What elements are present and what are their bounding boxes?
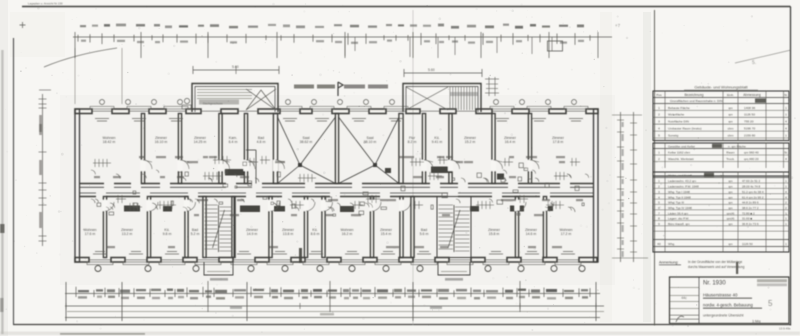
svg-text:Pos: Pos (656, 93, 662, 97)
title block outer box (670, 277, 790, 324)
svg-text:qm: qm (728, 206, 733, 210)
svg-text:17.2 m: 17.2 m (561, 232, 572, 236)
light smudge right of Nr row2 (757, 283, 787, 286)
svg-text:1: 1 (785, 133, 787, 137)
svg-text:17.8 m: 17.8 m (553, 140, 564, 144)
svg-text:1126 50: 1126 50 (744, 113, 755, 117)
svg-text:qm: qm (728, 190, 733, 194)
central corridor walls (80, 184, 594, 197)
building outer top wall with window openings (75, 109, 92, 114)
table section 1 box (653, 91, 789, 141)
svg-text:qm 960 40: qm 960 40 (744, 151, 759, 155)
svg-text:Whg.: Whg. (668, 242, 675, 246)
right panel data table (653, 60, 789, 269)
left vertical dimension chain (39, 90, 52, 246)
svg-text:qm: qm (728, 242, 733, 246)
stairwell 2 exit porch (438, 262, 470, 275)
svg-text:2: 2 (658, 157, 660, 161)
svg-text:qm: qm (720, 173, 725, 177)
bottom edge dark dash (60, 333, 145, 335)
bottom window sills (87, 262, 581, 265)
svg-text:nordw. 4-gesch. Bebauung: nordw. 4-gesch. Bebauung (703, 303, 753, 308)
page frame left border (13, 38, 15, 325)
svg-text:51.2 qm 4x 38 4: 51.2 qm 4x 38 4 (742, 190, 764, 194)
svg-text:61.4 qm 2x 95 2: 61.4 qm 2x 95 2 (742, 195, 764, 199)
dimension line over annex 1 (193, 65, 279, 74)
svg-text:38.10 m: 38.10 m (364, 140, 377, 144)
svg-text:15.2 m: 15.2 m (465, 140, 476, 144)
svg-text:Häuserstrasse 40: Häuserstrasse 40 (703, 293, 738, 298)
table section 1 text (656, 93, 788, 137)
svg-text:14.6 m: 14.6 m (526, 232, 537, 236)
svg-text:6.4 m: 6.4 m (229, 140, 238, 144)
svg-text:31.60 ■: 31.60 ■ (742, 217, 752, 221)
svg-text:1: 1 (658, 106, 660, 110)
radiator marks under windows (93, 119, 583, 255)
svg-text:44.8 2x 89 6: 44.8 2x 89 6 (742, 201, 759, 205)
chimney blocks (124, 167, 553, 213)
svg-text:1:Mg: 1:Mg (752, 320, 760, 324)
building floor plan group (75, 65, 738, 281)
dimension line over annex 2 (404, 68, 499, 96)
svg-text:Keller 1162 cbm: Keller 1162 cbm (668, 151, 691, 155)
svg-text:13.8 m: 13.8 m (283, 232, 294, 236)
X-hall crossed ceiling diagonals (278, 117, 400, 184)
svg-text:4: 4 (785, 120, 787, 124)
svg-text:qm(4): qm(4) (727, 217, 735, 221)
svg-text:5.2 m: 5.2 m (191, 232, 200, 236)
bottom band interior partition walls (103, 197, 546, 258)
svg-text:16.2 m: 16.2 m (342, 232, 353, 236)
small porch left of annex 1 (182, 98, 191, 109)
svg-text:n. qm Fläche: n. qm Fläche (728, 144, 746, 148)
svg-text:qm: qm (728, 106, 733, 110)
svg-text:St.: St. (784, 93, 788, 97)
svg-text:16.10 m: 16.10 m (155, 140, 168, 144)
bottom dimension chains (65, 281, 604, 321)
svg-text:36 8 2x 73 6: 36 8 2x 73 6 (742, 222, 759, 226)
svg-text:8.2 m: 8.2 m (408, 140, 417, 144)
svg-text:47.60 2x 51 2: 47.60 2x 51 2 (742, 179, 761, 183)
svg-text:Lagerr. dto P.W.: Lagerr. dto P.W. (668, 217, 689, 221)
svg-text:13.9.49s: 13.9.49s (779, 327, 791, 331)
svg-text:Ladenwohn. 43.2 qm: Ladenwohn. 43.2 qm (668, 179, 697, 183)
svg-text:St.: St. (784, 151, 788, 155)
svg-text:Wohnfläche: Wohnfläche (668, 113, 685, 117)
svg-text:9.41 m: 9.41 m (432, 140, 443, 144)
svg-text:qm: qm (728, 113, 733, 117)
thin sub-partition top band (255, 150, 257, 184)
svg-text:Waschk. Werkstatt: Waschk. Werkstatt (668, 157, 694, 161)
svg-text:Gebäude- und Wohnungsblatt: Gebäude- und Wohnungsblatt (694, 85, 748, 90)
top annex 2 (stair bay) (403, 84, 481, 113)
partition door gaps bottom band (102, 200, 554, 211)
svg-text:5.6 m: 5.6 m (420, 232, 429, 236)
svg-text:qm: qm (728, 185, 733, 189)
left scan edge streak (1, 50, 3, 334)
svg-text:1: 1 (658, 151, 660, 155)
svg-text:+7: +7 (615, 23, 621, 28)
svg-text:4: 4 (785, 127, 787, 131)
svg-text:qm: qm (728, 195, 733, 199)
svg-text:qm(4): qm(4) (727, 211, 735, 215)
svg-text:qm: qm (728, 120, 733, 124)
svg-text:In der Grundfläche von der: In der Grundfläche von der Müllanlage (688, 260, 742, 264)
svg-text:14.9 m: 14.9 m (247, 232, 258, 236)
svg-text:14.25 m: 14.25 m (194, 140, 207, 144)
svg-text:8.6 m: 8.6 m (311, 232, 320, 236)
svg-text:Lageplan u. Ansicht Nr.130: Lageplan u. Ansicht Nr.130 (28, 2, 63, 6)
svg-text:40: 40 (657, 242, 661, 246)
room labels (84, 136, 573, 236)
svg-text:5196 70: 5196 70 (744, 127, 755, 131)
svg-text:Whg. Typ I 1948: Whg. Typ I 1948 (668, 190, 690, 194)
svg-text:Bebaute Fläche: Bebaute Fläche (668, 106, 690, 110)
right panel separator line (654, 10, 656, 326)
dark axis mark right of plan (736, 262, 738, 274)
svg-text:16.4 m: 16.4 m (505, 140, 516, 144)
top band interior partition walls (141, 114, 531, 184)
svg-text:durchs Mauerwerk und auf Ve: durchs Mauerwerk und auf Verwendung (688, 265, 745, 269)
axis marker circles top (100, 100, 577, 105)
svg-text:Raum: Raum (726, 151, 735, 155)
svg-text:Trock.: Trock. (726, 157, 735, 161)
svg-text:Whg. Typ IV 1948: Whg. Typ IV 1948 (668, 206, 692, 210)
svg-text:Wohn- und Nutzfl.: Wohn- und Nutzfl. (668, 173, 693, 177)
bottom scan edge streak (0, 332, 800, 336)
svg-text:Ladenwohn. P.W. 1948: Ladenwohn. P.W. 1948 (668, 185, 699, 189)
svg-text:5.60: 5.60 (232, 65, 239, 69)
svg-text:Läden 36.4 qm: Läden 36.4 qm (668, 211, 689, 215)
svg-text:15.4 m: 15.4 m (381, 232, 392, 236)
left leader curve (44, 48, 117, 67)
svg-text:5.: 5. (752, 60, 756, 66)
page frame right border (790, 7, 792, 326)
top annex 1 (stair bay) (192, 84, 278, 113)
svg-text:Umbauter Raum (brutto): Umbauter Raum (brutto) (668, 127, 702, 131)
stairwell 1 (203, 197, 234, 258)
left edge scan artifact 2 (0, 298, 4, 312)
table section 2 box (653, 143, 789, 176)
svg-text:untergeordnete Übersicht: untergeordnete Übersicht (703, 314, 744, 318)
svg-text:Dachgeschoss: Dachgeschoss (203, 102, 223, 106)
door swings and fixtures (91, 162, 589, 216)
svg-text:15.8 m: 15.8 m (489, 232, 500, 236)
svg-text:Nr. 1930: Nr. 1930 (703, 281, 726, 287)
table section 3 text (657, 173, 787, 246)
registration plus mark (20, 22, 26, 28)
vertical paper fold crease (412, 10, 414, 325)
svg-text:qm: qm (728, 179, 733, 183)
building outer right wall (594, 109, 599, 262)
title block left column divider (698, 277, 700, 324)
svg-text:9.8 m: 9.8 m (163, 232, 172, 236)
left edge scan artifact (0, 224, 5, 233)
svg-text:5.60: 5.60 (428, 68, 435, 72)
axis marker circles bottom (95, 266, 585, 272)
right vertical dimension chains (612, 112, 648, 262)
svg-text:qm 480 20: qm 480 20 (744, 157, 759, 161)
svg-text:2159 80: 2159 80 (744, 133, 755, 137)
svg-text:cbm: cbm (728, 127, 734, 131)
svg-text:Anmerkung:: Anmerkung: (659, 261, 678, 265)
svg-text:44c: 44c (681, 296, 687, 300)
svg-text:cbm: cbm (728, 133, 734, 137)
svg-text:4.8 m: 4.8 m (257, 140, 266, 144)
small interior dimension smudges (94, 156, 583, 248)
svg-text:5: 5 (768, 299, 773, 308)
stairwell 1 exit porch (204, 262, 233, 275)
svg-text:Abmessung: Abmessung (743, 93, 761, 97)
svg-text:72.80 ■ 2: 72.80 ■ 2 (742, 211, 755, 215)
svg-text:4: 4 (785, 157, 787, 161)
page frame top border (22, 6, 791, 8)
partition door gaps top band (140, 160, 539, 171)
svg-text:qm: qm (728, 201, 733, 205)
svg-text:Büro Hausfl. qm: Büro Hausfl. qm (668, 222, 690, 226)
light smudge right of Nr row1 (757, 279, 787, 282)
svg-text:1: 1 (785, 106, 787, 110)
svg-text:1: 1 (785, 113, 787, 117)
svg-text:Bezeichnung: Bezeichnung (684, 93, 703, 97)
axis labels between annexes (294, 82, 388, 96)
svg-text:Einh.: Einh. (727, 93, 734, 97)
handwritten squiggle left column (676, 316, 684, 322)
svg-text:755 20: 755 20 (744, 120, 754, 124)
svg-text:Whg. Typ III: Whg. Typ III (668, 201, 684, 205)
page frame bottom border (13, 324, 791, 326)
top window sills (90, 106, 588, 109)
table section 3 box (653, 172, 789, 252)
svg-text:3: 3 (658, 120, 660, 124)
small open box marker on chain (548, 41, 563, 51)
dark door hatch near x300 (299, 248, 302, 263)
svg-text:18.42 m: 18.42 m (103, 140, 116, 144)
svg-text:28.00 4x 74 8: 28.00 4x 74 8 (742, 185, 761, 189)
building outer bottom wall with window openings (75, 258, 89, 263)
svg-text:qm: qm (728, 222, 733, 226)
table section 2 text (658, 144, 788, 161)
svg-text:Sonstig: Sonstig (668, 133, 679, 137)
svg-text:1126 50: 1126 50 (742, 242, 753, 246)
svg-text:13.2 m: 13.2 m (122, 232, 133, 236)
interior dimension tick clusters (93, 156, 580, 211)
svg-text:Gewölbe und Keller: Gewölbe und Keller (668, 144, 695, 148)
svg-text:38.62 m: 38.62 m (300, 140, 313, 144)
svg-text:Whg. Typ II 1948: Whg. Typ II 1948 (668, 195, 691, 199)
right leader curve (735, 50, 791, 63)
svg-text:17.6 m: 17.6 m (85, 232, 96, 236)
svg-text:Grundflächen und Rauminhalte: Grundflächen und Rauminhalte n. DIN (670, 99, 722, 103)
svg-text:2: 2 (658, 113, 660, 117)
Anmerkung note text (659, 260, 745, 269)
svg-text:4: 4 (658, 127, 660, 131)
svg-text:1408 96: 1408 96 (744, 106, 755, 110)
top dimension chain (73, 24, 612, 104)
building outer left wall (75, 109, 80, 262)
svg-text:5: 5 (658, 133, 660, 137)
svg-text:Nutzfläche DIN: Nutzfläche DIN (668, 120, 689, 124)
title block (670, 277, 792, 331)
svg-text:38.6 2x 77 2: 38.6 2x 77 2 (742, 206, 759, 210)
stairwell 2 (437, 197, 471, 258)
